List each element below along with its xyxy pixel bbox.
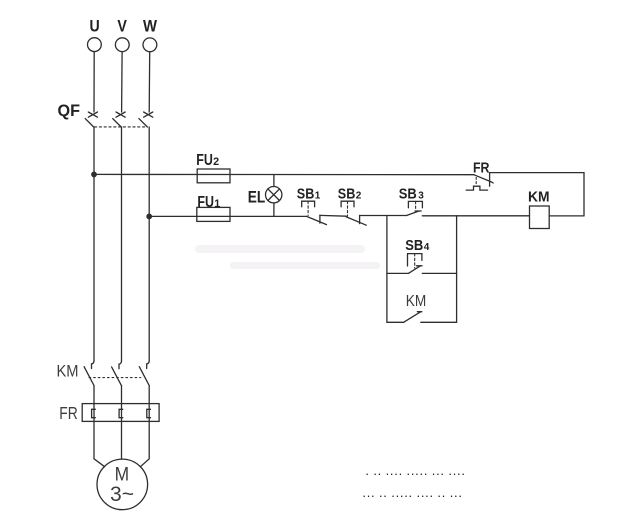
svg-text:SB: SB (338, 186, 356, 202)
wire branch bottom left (387, 321, 404, 323)
svg-text:SB: SB (297, 186, 315, 202)
relay FR contact (NC, top rail) (466, 160, 493, 190)
lamp EL stub lower (273, 203, 275, 217)
lamp EL stub upper (273, 175, 275, 187)
svg-text:EL: EL (248, 188, 265, 206)
contactor coil KM (528, 188, 550, 228)
svg-text:V: V (117, 18, 127, 36)
svg-text:FU: FU (196, 152, 213, 169)
wire phase V middle (121, 127, 123, 361)
wire branch middle right (422, 272, 456, 274)
node junction on U phase (91, 172, 97, 178)
wire rail SB2-SB3 (360, 215, 407, 217)
svg-text:SB: SB (399, 187, 417, 203)
svg-text:QF: QF (58, 102, 81, 120)
wire motor lead 2 (121, 421, 123, 459)
terminal V (115, 18, 129, 52)
wire bottom control rail (W tap to SB1) (149, 215, 306, 217)
breaker QF pole 1 (85, 112, 97, 127)
wire W phase upper (148, 52, 151, 112)
wire phase W middle (148, 127, 150, 361)
svg-text:1: 1 (214, 198, 220, 210)
contact SB4 blade (408, 266, 422, 274)
contactor KM main pole 3 (139, 361, 149, 386)
pushbutton SB2 (NC stop) (338, 186, 367, 225)
svg-text:SB: SB (405, 238, 423, 254)
wire phase U lower (93, 386, 95, 404)
svg-text:FR: FR (59, 403, 78, 423)
relay FR heater box (59, 403, 159, 423)
pushbutton SB1 (NC stop) (297, 186, 327, 224)
breaker QF linkage (dashed) (95, 126, 147, 128)
svg-text:1: 1 (315, 190, 321, 201)
fuse FU2 (196, 152, 230, 183)
node junction on W phase (146, 214, 152, 220)
terminal U (88, 18, 102, 52)
svg-text:2: 2 (356, 190, 362, 201)
wire U phase upper (93, 52, 95, 112)
relay FR heater element 2 (119, 404, 123, 422)
svg-text:3~: 3~ (110, 482, 134, 506)
wire coil to right vertical (549, 215, 584, 217)
faint watermark remnant (center) (195, 245, 380, 269)
wire rail SB3-KM coil (422, 215, 529, 217)
svg-text:··· ·· ····· ···· ·· ···: ··· ·· ····· ···· ·· ··· (362, 488, 462, 503)
relay FR heater element 3 (147, 404, 151, 422)
breaker QF pole 3 (139, 112, 153, 127)
wire right-side vertical drop (583, 173, 585, 216)
svg-text:U: U (90, 18, 100, 36)
wire branch right vertical (456, 216, 458, 322)
terminal W (143, 18, 157, 52)
wire phase W lower (148, 386, 150, 404)
wire motor lead 3 (140, 421, 149, 466)
wire phase V lower (121, 386, 123, 404)
svg-text:3: 3 (418, 191, 424, 202)
wire motor lead 1 (94, 421, 105, 466)
svg-text:FR: FR (473, 160, 490, 176)
svg-text:4: 4 (424, 242, 430, 253)
svg-text:KM: KM (57, 362, 79, 381)
lamp EL (248, 187, 282, 207)
wire branch middle left (387, 272, 409, 274)
wire branch bottom right (421, 321, 457, 323)
wire top control rail (left of FR) (94, 173, 474, 175)
contactor KM main pole 1 (84, 361, 94, 386)
wire phase U middle (93, 127, 95, 361)
breaker QF pole 2 (113, 112, 126, 127)
svg-text:KM: KM (528, 188, 550, 205)
relay FR heater element 1 (92, 404, 96, 422)
contactor KM main pole 2 (112, 361, 122, 386)
wire branch left vertical (386, 216, 388, 323)
svg-text:FU: FU (197, 194, 214, 211)
svg-text:KM: KM (406, 293, 427, 310)
contact KM auxiliary (self-holding) (404, 293, 427, 322)
svg-text:· ·· ···· ····· ··· ····: · ·· ···· ····· ··· ···· (365, 466, 465, 481)
faint watermark remnant (bottom right) (362, 466, 465, 503)
svg-text:W: W (143, 18, 157, 36)
pushbutton SB3 (NO start) (399, 187, 425, 216)
fuse FU1 (197, 194, 230, 221)
wire rail SB1-SB2 (320, 214, 346, 217)
motor M 3~ (97, 459, 148, 510)
pushbutton SB4 (NO start, parallel) (405, 238, 430, 268)
svg-text:2: 2 (213, 156, 219, 168)
wire top control rail (right of FR) (490, 172, 584, 174)
wire V phase upper (121, 52, 124, 112)
contactor KM linkage (dotted) (89, 377, 141, 379)
